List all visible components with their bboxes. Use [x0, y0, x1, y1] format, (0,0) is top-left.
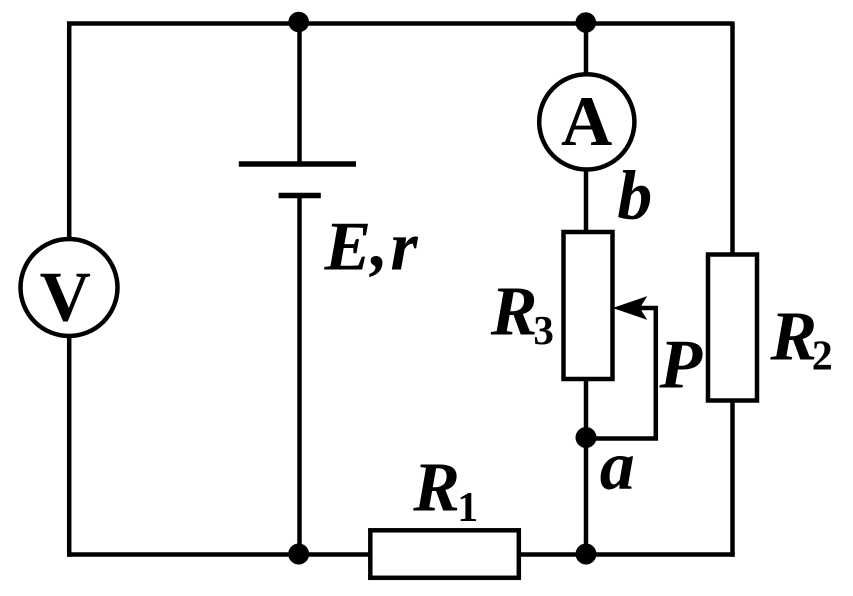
wire right lower (R2 to bottom corner)	[730, 401, 735, 557]
node a junction dot	[576, 427, 597, 448]
svg-text:,: ,	[369, 206, 389, 283]
node: bottom battery junction	[288, 544, 309, 565]
battery short plate	[279, 193, 321, 198]
svg-text:P: P	[658, 327, 703, 404]
resistor R3	[564, 232, 613, 379]
wire from top node to ammeter	[584, 22, 589, 76]
wire top	[67, 21, 733, 26]
resistor R2	[708, 255, 757, 401]
svg-text:2: 2	[812, 334, 833, 380]
node: top ammeter-branch junction	[576, 12, 597, 33]
battery lead from top node	[297, 22, 302, 164]
wiper arrowhead	[615, 298, 646, 319]
wire R3 to node a and bottom	[584, 379, 589, 555]
svg-text:R: R	[490, 274, 538, 351]
node: bottom R3-branch junction	[576, 544, 597, 565]
battery long plate	[239, 161, 356, 166]
svg-text:1: 1	[457, 485, 478, 531]
resistor R1	[370, 530, 519, 578]
svg-text:V: V	[40, 259, 91, 337]
wire bottom left (corner to R1)	[67, 552, 370, 557]
svg-text:b: b	[617, 158, 652, 235]
wire bottom right (R1 to corner)	[519, 552, 735, 557]
wire left lower (voltmeter to bottom corner)	[67, 335, 72, 557]
wire left upper (top corner to voltmeter)	[67, 22, 72, 241]
svg-text:R: R	[769, 298, 817, 375]
wire right upper (top corner to R2)	[730, 22, 735, 255]
ammeter U-A circle	[539, 74, 634, 169]
svg-text:r: r	[390, 208, 418, 285]
wire ammeter to R3	[584, 168, 589, 234]
svg-text:3: 3	[533, 307, 554, 353]
node: top battery junction	[288, 12, 309, 33]
battery lead down to bottom wire	[297, 196, 302, 555]
voltmeter U-V circle	[21, 239, 118, 336]
svg-text:R: R	[412, 450, 460, 527]
svg-text:E: E	[324, 208, 372, 285]
potentiometer wiper wire	[586, 308, 656, 439]
svg-text:A: A	[561, 83, 612, 161]
svg-text:a: a	[600, 428, 635, 505]
